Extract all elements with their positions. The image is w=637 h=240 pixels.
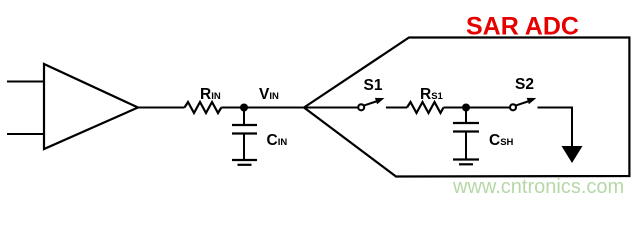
resistor RIN: [185, 102, 222, 113]
svg-text:VIN: VIN: [259, 86, 279, 103]
wire RIN to SAR ADC vertex: [221, 107, 305, 109]
wire vertex to S1: [304, 107, 358, 109]
svg-text:S2: S2: [515, 76, 534, 93]
wire op-amp output to R_IN: [138, 107, 185, 109]
op-amp U1 input wire (bottom): [7, 133, 44, 135]
wire S2 to corner: [538, 108, 573, 148]
svg-text:SAR ADC: SAR ADC: [466, 13, 579, 41]
capacitor CSH lower wire: [465, 132, 467, 160]
svg-text:RIN: RIN: [200, 86, 221, 103]
resistor RS1: [407, 102, 444, 113]
capacitor CSH wire from node: [465, 108, 467, 124]
ground arrow: [562, 146, 583, 163]
wire S1 to RS1: [386, 107, 407, 109]
node VIN junction dot: [240, 104, 248, 112]
switch S1: [358, 98, 384, 110]
svg-text:CSH: CSH: [489, 132, 514, 149]
ground (CSH): [453, 160, 479, 165]
op-amp U1 input wire (top): [7, 81, 44, 83]
op-amp U1: [44, 64, 138, 149]
SAR ADC block outline: [304, 38, 629, 177]
capacitor CIN lower wire: [243, 134, 245, 161]
capacitor CIN: [232, 125, 257, 134]
capacitor CIN wire from node: [243, 108, 245, 126]
svg-text:S1: S1: [364, 77, 383, 94]
capacitor CSH: [453, 123, 479, 132]
svg-text:RS1: RS1: [420, 86, 444, 103]
switch S2: [510, 98, 536, 110]
node CSH junction dot: [462, 104, 470, 112]
wire RS1 to S2: [444, 107, 511, 109]
svg-text:CIN: CIN: [267, 132, 288, 149]
svg-text:www.cntronics.com: www.cntronics.com: [452, 176, 624, 198]
ground (CIN): [232, 160, 257, 165]
